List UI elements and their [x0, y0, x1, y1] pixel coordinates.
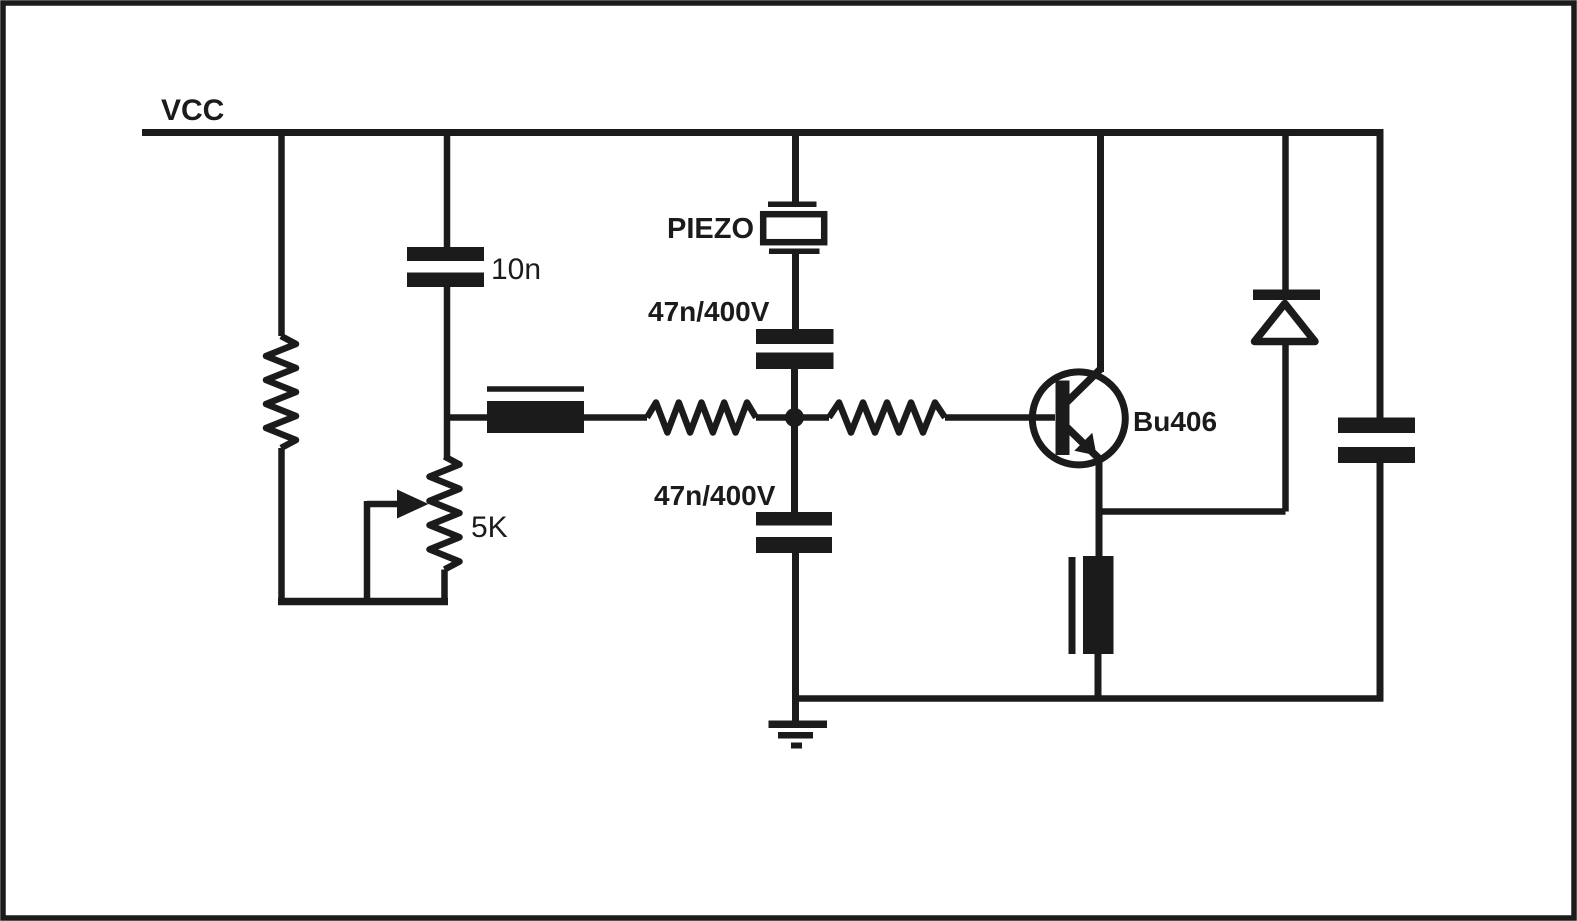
capacitor 10n plates: [407, 247, 484, 287]
wire emitter down to winding: [1096, 462, 1103, 558]
capacitor C3 47n/400V plates: [756, 512, 832, 553]
svg-text:10n: 10n: [491, 253, 541, 286]
wire C4 to bottom bus: [1377, 463, 1384, 702]
svg-text:PIEZO: PIEZO: [667, 213, 754, 245]
wire capacitor 10n to potentiometer: [444, 287, 451, 458]
value label 47n/400V upper: [648, 296, 770, 327]
wire C3 to ground bus: [792, 553, 799, 723]
net label VCC: [161, 94, 224, 127]
svg-text:5K: 5K: [471, 511, 508, 544]
svg-text:VCC: VCC: [161, 94, 224, 127]
label Bu406: [1133, 406, 1217, 437]
resistor R2: [647, 403, 756, 433]
capacitor C2 47n/400V plates: [756, 329, 834, 369]
value label 5K: [471, 511, 508, 544]
transistor Q1 circle: [1032, 372, 1125, 465]
value label 10n: [491, 253, 541, 286]
capacitor C4 plates: [1338, 418, 1415, 464]
wire L1 to R2: [584, 414, 647, 421]
wire diode anode down to emitter node wire: [1282, 345, 1289, 512]
wire rail to capacitor 10n: [444, 129, 451, 249]
wire potentiometer bottom to lower-left bus: [441, 570, 448, 602]
transistor Q1 base bar: [1056, 381, 1070, 456]
potentiometer wiper arrow: [367, 490, 429, 519]
wire bottom bus: [793, 695, 1384, 702]
inductor L1 core line: [487, 386, 584, 392]
svg-text:47n/400V: 47n/400V: [654, 480, 776, 511]
svg-text:47n/400V: 47n/400V: [648, 296, 770, 327]
wire R2 to node: [756, 414, 795, 421]
diode D1 cathode bar: [1253, 290, 1320, 301]
transistor Q1 collector stroke: [1067, 369, 1101, 403]
transistor Q1 emitter stroke with arrow: [1067, 428, 1102, 462]
wire node to R3: [795, 414, 829, 421]
wire R3 to transistor base: [945, 414, 1055, 421]
wire rail to diode cathode: [1282, 129, 1289, 292]
wire rail corner down to capacitor C4: [1377, 129, 1384, 419]
svg-text:Bu406: Bu406: [1133, 406, 1217, 437]
wire piezo to capacitor C2: [792, 254, 799, 330]
wire rail to R1 top: [278, 129, 285, 336]
wire R1 bottom to lower-left bus: [278, 448, 285, 602]
potentiometer 5K resistor body: [430, 457, 460, 570]
wire wiper down to lower-left bus: [364, 501, 371, 602]
piezo transducer: [763, 202, 824, 255]
ground: [769, 721, 828, 749]
wire lower-left bus: [278, 598, 448, 606]
value label 47n/400V lower: [654, 480, 776, 511]
resistor R1: [266, 336, 296, 448]
diode D1 triangle: [1255, 304, 1316, 342]
junction node dot: [785, 408, 804, 427]
inductor L2 winding body: [1083, 556, 1114, 654]
wire collector to rail: [1097, 129, 1104, 372]
wire node to inductor L1: [444, 414, 487, 421]
wire rail down to piezo: [792, 129, 799, 203]
resistor R3: [829, 403, 945, 433]
inductor L2 core line: [1069, 557, 1076, 654]
wire winding to bottom bus: [1095, 654, 1102, 699]
inductor L1 winding body: [487, 401, 584, 433]
wire C2 to node: [791, 369, 798, 512]
wire VCC power rail: [142, 129, 1384, 136]
wire emitter node to diode branch: [1099, 508, 1286, 515]
label PIEZO: [667, 213, 754, 245]
